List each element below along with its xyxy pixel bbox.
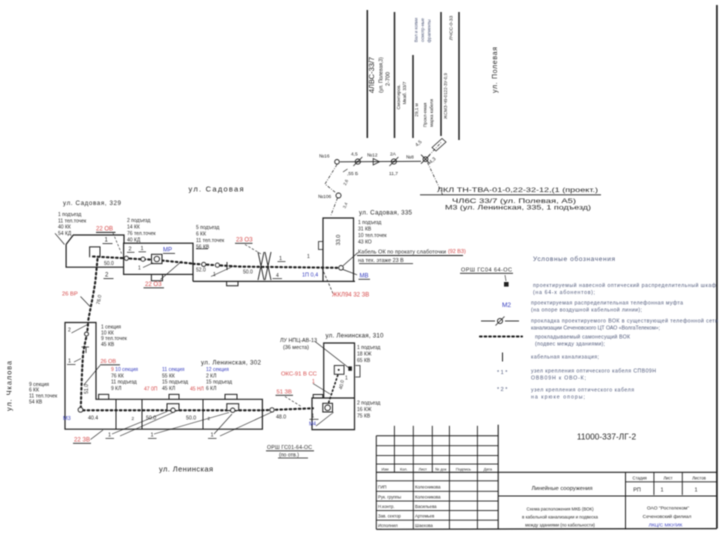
svg-text:5 подъезд: 5 подъезд xyxy=(196,225,219,231)
svg-text:15 подъезд: 15 подъезд xyxy=(162,380,188,386)
svg-text:Схема расположения МКБ (ВОК): Схема расположения МКБ (ВОК) xyxy=(526,507,594,512)
cabinet box xyxy=(152,254,163,263)
svg-text:Изм: Изм xyxy=(381,467,388,471)
node at 335 xyxy=(339,266,344,271)
svg-text:3,4: 3,4 xyxy=(342,201,349,209)
legend symbol suspended cable xyxy=(480,335,522,337)
svg-text:ЖСМЗ-Ч9-0122-ЗУ-0,9: ЖСМЗ-Ч9-0122-ЗУ-0,9 xyxy=(443,72,448,118)
node xyxy=(270,408,274,412)
svg-text:11 тел.точек: 11 тел.точек xyxy=(58,218,87,224)
svg-text:4: 4 xyxy=(276,273,279,279)
svg-text:ГИП: ГИП xyxy=(378,485,387,490)
svg-text:9 10 секция: 9 10 секция xyxy=(111,367,138,373)
svg-text:ул. Ленинская, 302: ул. Ленинская, 302 xyxy=(201,360,262,367)
svg-text:76 тел.точек: 76 тел.точек xyxy=(127,231,156,237)
svg-text:48.0: 48.0 xyxy=(276,415,286,421)
svg-text:16 КЖ: 16 КЖ xyxy=(357,407,372,413)
svg-text:56 КВ: 56 КВ xyxy=(196,245,210,251)
svg-text:54 КД: 54 КД xyxy=(58,231,72,237)
svg-text:11,7: 11,7 xyxy=(389,171,398,177)
entrance notch xyxy=(313,395,323,399)
svg-text:14 КК: 14 КК xyxy=(127,225,140,231)
entrance notch xyxy=(90,247,100,257)
title block horizontals xyxy=(376,435,498,437)
section divider xyxy=(141,399,143,429)
svg-text:54 КВ: 54 КВ xyxy=(29,400,43,406)
wire duct down to building 335 xyxy=(325,165,337,193)
svg-text:ул. Садовая, 335: ул. Садовая, 335 xyxy=(359,210,413,217)
svg-text:26 ОВ: 26 ОВ xyxy=(101,359,117,365)
svg-text:на тех. этаже 23 В: на тех. этаже 23 В xyxy=(358,258,404,264)
node xyxy=(124,256,128,260)
wire manhole to building xyxy=(331,198,338,215)
svg-text:40.0: 40.0 xyxy=(338,379,346,390)
svg-text:45 КЛ: 45 КЛ xyxy=(162,386,175,392)
svg-text:1 подъезд: 1 подъезд xyxy=(358,220,381,226)
svg-text:15 подъезд: 15 подъезд xyxy=(206,380,232,386)
svg-text:1: 1 xyxy=(138,266,141,272)
svg-text:ул. Садовая, 329: ул. Садовая, 329 xyxy=(63,200,122,207)
svg-text:2 подъезд: 2 подъезд xyxy=(127,218,150,224)
svg-text:Колесникова: Колесникова xyxy=(415,485,441,490)
svg-text:Смонтиров.: Смонтиров. xyxy=(396,84,401,109)
coupling 2А xyxy=(391,159,396,164)
svg-text:9 КЛ: 9 КЛ xyxy=(111,386,121,392)
cable run section 329 xyxy=(93,257,151,260)
svg-text:50.0: 50.0 xyxy=(243,270,253,276)
svg-text:Зав. сектор: Зав. сектор xyxy=(378,514,401,519)
svg-text:ОРШ ГС01-64-ОС: ОРШ ГС01-64-ОС xyxy=(267,445,312,451)
svg-text:51 ЗВ: 51 ЗВ xyxy=(277,390,293,396)
aerial line pole 4 xyxy=(440,12,442,136)
svg-text:МВ: МВ xyxy=(360,274,369,280)
svg-text:прокладываемый самонесущий ВОК: прокладываемый самонесущий ВОК xyxy=(535,334,630,341)
bracket xyxy=(355,366,360,378)
bottom edge bld 335 row xyxy=(193,280,355,282)
svg-text:Шаехова: Шаехова xyxy=(415,523,433,528)
svg-text:2: 2 xyxy=(105,273,109,279)
svg-text:ЛЧСС-0-33: ЛЧСС-0-33 xyxy=(449,15,455,40)
svg-text:11 секция: 11 секция xyxy=(162,367,185,373)
svg-text:РП: РП xyxy=(633,488,641,494)
riser in Чкалова wing xyxy=(81,324,88,408)
svg-text:Прокл-емая: Прокл-емая xyxy=(423,102,428,127)
svg-text:Вал и копии: Вал и копии xyxy=(414,17,419,42)
bracket xyxy=(319,242,324,250)
svg-text:2 КЛ: 2 КЛ xyxy=(206,373,216,379)
svg-text:Кол.: Кол. xyxy=(400,467,408,471)
svg-text:4,5: 4,5 xyxy=(414,139,423,148)
svg-text:50.0: 50.0 xyxy=(186,416,196,422)
svg-text:между зданиями (по кабельности: между зданиями (по кабельности) xyxy=(525,523,595,528)
svg-text:1 подъезд: 1 подъезд xyxy=(58,212,81,218)
aerial line pole 5 xyxy=(458,12,460,140)
svg-text:11 тел.точек: 11 тел.точек xyxy=(196,238,225,244)
box node xyxy=(167,404,179,411)
svg-text:45 КВ: 45 КВ xyxy=(101,342,115,348)
entrance notch below middle wing xyxy=(227,281,238,285)
wire to pole 4 xyxy=(429,143,442,157)
box node at run xyxy=(323,403,333,412)
building 329 section 2 xyxy=(124,243,193,274)
svg-text:* 1 *: * 1 * xyxy=(497,370,508,376)
coupling 4,5 xyxy=(355,159,360,164)
svg-text:прокладка проектируемого ВОК в: прокладка проектируемого ВОК в существую… xyxy=(531,318,718,325)
entrance notch below xyxy=(151,274,162,280)
svg-text:Рук. группы: Рук. группы xyxy=(378,494,401,499)
svg-text:22 ОЗ: 22 ОЗ xyxy=(145,282,162,288)
svg-text:Лист: Лист xyxy=(419,467,428,471)
svg-text:47 0П: 47 0П xyxy=(144,387,158,393)
svg-text:2А: 2А xyxy=(390,152,397,158)
svg-text:узел крепления оптического каб: узел крепления оптического кабеля СПВ09Н xyxy=(531,369,656,375)
svg-text:22 ЗВ: 22 ЗВ xyxy=(74,438,90,444)
svg-text:проектируемая распределительна: проектируемая распределительная телефонн… xyxy=(531,301,683,307)
svg-text:ЛКЛ ТН-ТВА-01-0,22-32-12,(1 (п: ЛКЛ ТН-ТВА-01-0,22-32-12,(1 (проект.) xyxy=(437,188,598,194)
svg-text:№106: №106 xyxy=(318,194,331,200)
svg-text:6 КЛ: 6 КЛ xyxy=(206,386,216,392)
svg-text:31 КВ: 31 КВ xyxy=(358,227,372,233)
svg-text:узел крепления оптического каб: узел крепления оптического кабеля xyxy=(531,388,634,394)
svg-text:ОАО "Ростелеком": ОАО "Ростелеком" xyxy=(647,506,690,512)
svg-text:Артемьев: Артемьев xyxy=(415,514,435,519)
svg-text:ул. Ленинская, 310: ул. Ленинская, 310 xyxy=(326,333,385,340)
svg-text:1: 1 xyxy=(68,359,71,365)
svg-text:Стадия: Стадия xyxy=(633,476,647,481)
cabinet (filled) xyxy=(348,366,352,370)
legend symbol bar xyxy=(502,353,504,362)
svg-text:4ЛВС-33/7: 4ЛВС-33/7 xyxy=(367,57,376,93)
svg-text:1: 1 xyxy=(694,488,697,494)
svg-text:кабельная канализация;: кабельная канализация; xyxy=(531,355,599,361)
svg-text:МР: МР xyxy=(163,248,172,254)
svg-text:(подвес между зданиями);: (подвес между зданиями); xyxy=(535,342,605,348)
svg-text:2-700: 2-700 xyxy=(386,72,392,86)
entrance notch xyxy=(225,394,237,399)
svg-text:№ док: № док xyxy=(435,467,446,471)
svg-text:Васильева: Васильева xyxy=(415,504,437,509)
building 310 xyxy=(312,343,355,430)
svg-text:ул. Чкалова: ул. Чкалова xyxy=(5,361,14,411)
svg-text:33.0: 33.0 xyxy=(336,235,342,246)
svg-text:Линейные сооружения: Линейные сооружения xyxy=(531,485,592,492)
svg-text:1П 0,4: 1П 0,4 xyxy=(302,273,318,279)
svg-text:76.0: 76.0 xyxy=(96,294,104,305)
aerial line pole 1 (ул. Полевая) xyxy=(366,10,368,138)
svg-text:23 ОЗ: 23 ОЗ xyxy=(236,238,253,244)
svg-text:на крюке опоры;: на крюке опоры; xyxy=(531,395,585,401)
svg-text:ОКС-91 В СС: ОКС-91 В СС xyxy=(281,372,317,378)
cable run middle xyxy=(193,264,338,268)
closure (parallelogram) xyxy=(432,139,446,152)
svg-text:2: 2 xyxy=(132,416,135,421)
svg-text:№16: №16 xyxy=(319,154,330,160)
svg-text:29,1 м: 29,1 м xyxy=(414,103,419,116)
building 329 right wing edge xyxy=(192,274,194,281)
svg-text:65 КВ: 65 КВ xyxy=(357,358,371,364)
section divider xyxy=(202,399,204,429)
svg-text:6 КК: 6 КК xyxy=(196,232,206,238)
svg-text:М2: М2 xyxy=(502,302,511,309)
svg-text:ЛКЦ/С МКУ/ИК: ЛКЦ/С МКУ/ИК xyxy=(649,523,683,529)
svg-text:ул. Полевая: ул. Полевая xyxy=(492,47,499,93)
svg-text:Подпись: Подпись xyxy=(456,467,471,471)
building 329 section 1 xyxy=(66,235,124,267)
building 302 L-shape xyxy=(65,323,262,430)
page right border xyxy=(716,5,718,529)
svg-text:канализации Сеченовского ЦТ ОА: канализации Сеченовского ЦТ ОАО «ВолгаТе… xyxy=(531,326,660,332)
svg-text:2 подъезд: 2 подъезд xyxy=(357,401,380,407)
svg-text:(ул. Полевая,3): (ул. Полевая,3) xyxy=(379,57,385,93)
svg-text:18 КЖ: 18 КЖ xyxy=(357,352,372,358)
entrance notch xyxy=(169,394,179,399)
svg-text:1: 1 xyxy=(105,238,109,244)
svg-text:45 НЛ: 45 НЛ xyxy=(190,387,204,393)
svg-text:фрагменты: фрагменты xyxy=(427,19,432,42)
svg-text:осмотр-ные: осмотр-ные xyxy=(420,17,425,41)
node xyxy=(141,257,145,261)
svg-text:Кабель ОК по прокату слаботочк: Кабель ОК по прокату слаботочки xyxy=(358,250,446,256)
svg-text:1: 1 xyxy=(141,246,144,252)
svg-text:М4: М4 xyxy=(309,422,316,428)
road crossing marks xyxy=(258,252,264,280)
leaders xyxy=(343,253,358,266)
svg-text:ОВВ09Н к ОВО-К;: ОВВ09Н к ОВО-К; xyxy=(531,376,586,382)
aerial line pole 2 xyxy=(394,12,396,138)
svg-text:(36 места): (36 места) xyxy=(283,345,309,351)
svg-text:2,6: 2,6 xyxy=(342,178,349,186)
manhole №16 xyxy=(335,160,340,165)
svg-text:Сеченовский филиал: Сеченовский филиал xyxy=(643,513,692,520)
svg-text:Н.контр.: Н.контр. xyxy=(378,504,395,509)
svg-text:1: 1 xyxy=(660,488,663,494)
svg-text:Дата: Дата xyxy=(484,467,493,471)
svg-text:50.0: 50.0 xyxy=(104,261,114,267)
node xyxy=(78,407,83,412)
svg-text:11 подъезд: 11 подъезд xyxy=(111,380,137,386)
svg-text:ЧЛ6С 33/7 (ул. Полевая, А5): ЧЛ6С 33/7 (ул. Полевая, А5) xyxy=(452,199,576,205)
svg-text:(на 64-х абонентов);: (на 64-х абонентов); xyxy=(533,290,595,296)
svg-text:Мкаб. 33/7: Мкаб. 33/7 xyxy=(402,81,407,104)
svg-text:1: 1 xyxy=(211,433,214,439)
svg-text:76 КК: 76 КК xyxy=(111,373,124,379)
svg-text:в кабельной канализации и подв: в кабельной канализации и подвеска xyxy=(522,515,598,520)
note cable spec underline xyxy=(420,194,601,196)
inner box xyxy=(334,366,344,375)
riser 310 xyxy=(329,375,338,403)
svg-text:52.0: 52.0 xyxy=(196,268,206,274)
building 335 xyxy=(323,218,354,281)
svg-text:№8: №8 xyxy=(406,155,414,161)
svg-text:ОРШ ГС04 64-ОС: ОРШ ГС04 64-ОС xyxy=(461,268,512,274)
svg-text:проектируемый навесной оптичес: проектируемый навесной оптический распре… xyxy=(533,282,717,289)
legend symbol duct xyxy=(481,320,495,322)
svg-text:ул. Ленинская: ул. Ленинская xyxy=(159,465,213,474)
svg-text:22 ОВ: 22 ОВ xyxy=(96,227,113,233)
svg-text:(по отв.): (по отв.) xyxy=(279,453,299,459)
svg-text:51.0: 51.0 xyxy=(84,384,90,394)
svg-text:Колесникова: Колесникова xyxy=(415,494,441,499)
entrance notch xyxy=(99,394,109,399)
svg-text:1: 1 xyxy=(279,256,282,262)
section divider xyxy=(115,399,117,429)
svg-text:ЛУ НПЦ-АВ-13: ЛУ НПЦ-АВ-13 xyxy=(280,338,317,344)
svg-text:Условные обозначения: Условные обозначения xyxy=(533,255,615,263)
svg-text:марка кабеля: марка кабеля xyxy=(429,99,434,127)
svg-text:40 КД: 40 КД xyxy=(127,238,141,244)
svg-text:1: 1 xyxy=(312,414,315,420)
svg-text:М3 (ул. Ленинская, 335, 1 подъ: М3 (ул. Ленинская, 335, 1 подъезд) xyxy=(445,206,591,212)
wire junction to note xyxy=(428,163,443,195)
manhole №106 xyxy=(336,193,341,198)
svg-text:,55 Б: ,55 Б xyxy=(347,171,358,177)
svg-text:10 тел.точек: 10 тел.точек xyxy=(358,233,387,239)
svg-text:1: 1 xyxy=(151,433,154,439)
svg-text:ул. Садовая: ул. Садовая xyxy=(189,185,244,194)
svg-text:1: 1 xyxy=(307,254,310,260)
svg-text:(на опоре воздушной кабельной: (на опоре воздушной кабельной линии); xyxy=(531,307,642,314)
node xyxy=(215,263,219,267)
cable riser down to Чкалова building xyxy=(88,259,97,320)
svg-text:26 ВР: 26 ВР xyxy=(62,292,78,298)
cable run Ленинская xyxy=(83,409,262,411)
svg-text:Лист: Лист xyxy=(663,476,672,481)
svg-text:Исполнил: Исполнил xyxy=(378,523,398,528)
svg-text:1 подъезд: 1 подъезд xyxy=(357,345,380,351)
svg-text:ЖКЛ94 32 ЗВ: ЖКЛ94 32 ЗВ xyxy=(332,293,369,299)
svg-text:11000-337-ЛГ-2: 11000-337-ЛГ-2 xyxy=(577,432,637,442)
svg-text:2: 2 xyxy=(129,247,132,253)
svg-text:(92 ВЗ): (92 ВЗ) xyxy=(448,249,466,255)
wire top duct run xyxy=(340,160,421,163)
svg-text:12 секция: 12 секция xyxy=(206,367,229,373)
svg-text:4,5: 4,5 xyxy=(351,152,358,158)
legend symbol cabinet xyxy=(504,282,509,287)
svg-text:* 2 *: * 2 * xyxy=(497,387,508,393)
svg-text:75 КВ: 75 КВ xyxy=(357,414,371,420)
aerial line pole 3 xyxy=(412,55,414,138)
box node xyxy=(227,404,239,411)
title block frame xyxy=(375,436,377,530)
svg-text:2: 2 xyxy=(68,328,71,334)
svg-text:40.4: 40.4 xyxy=(88,416,98,422)
svg-text:55 КК: 55 КК xyxy=(162,373,175,379)
svg-text:№12: №12 xyxy=(367,153,378,159)
svg-text:1: 1 xyxy=(108,433,111,439)
svg-text:М3: М3 xyxy=(63,416,71,422)
svg-text:43 КО: 43 КО xyxy=(358,240,372,246)
svg-text:40 КК: 40 КК xyxy=(58,225,71,231)
node xyxy=(202,262,206,266)
svg-text:Листов: Листов xyxy=(692,476,706,481)
node №12 xyxy=(373,159,379,166)
svg-text:1: 1 xyxy=(345,376,348,382)
